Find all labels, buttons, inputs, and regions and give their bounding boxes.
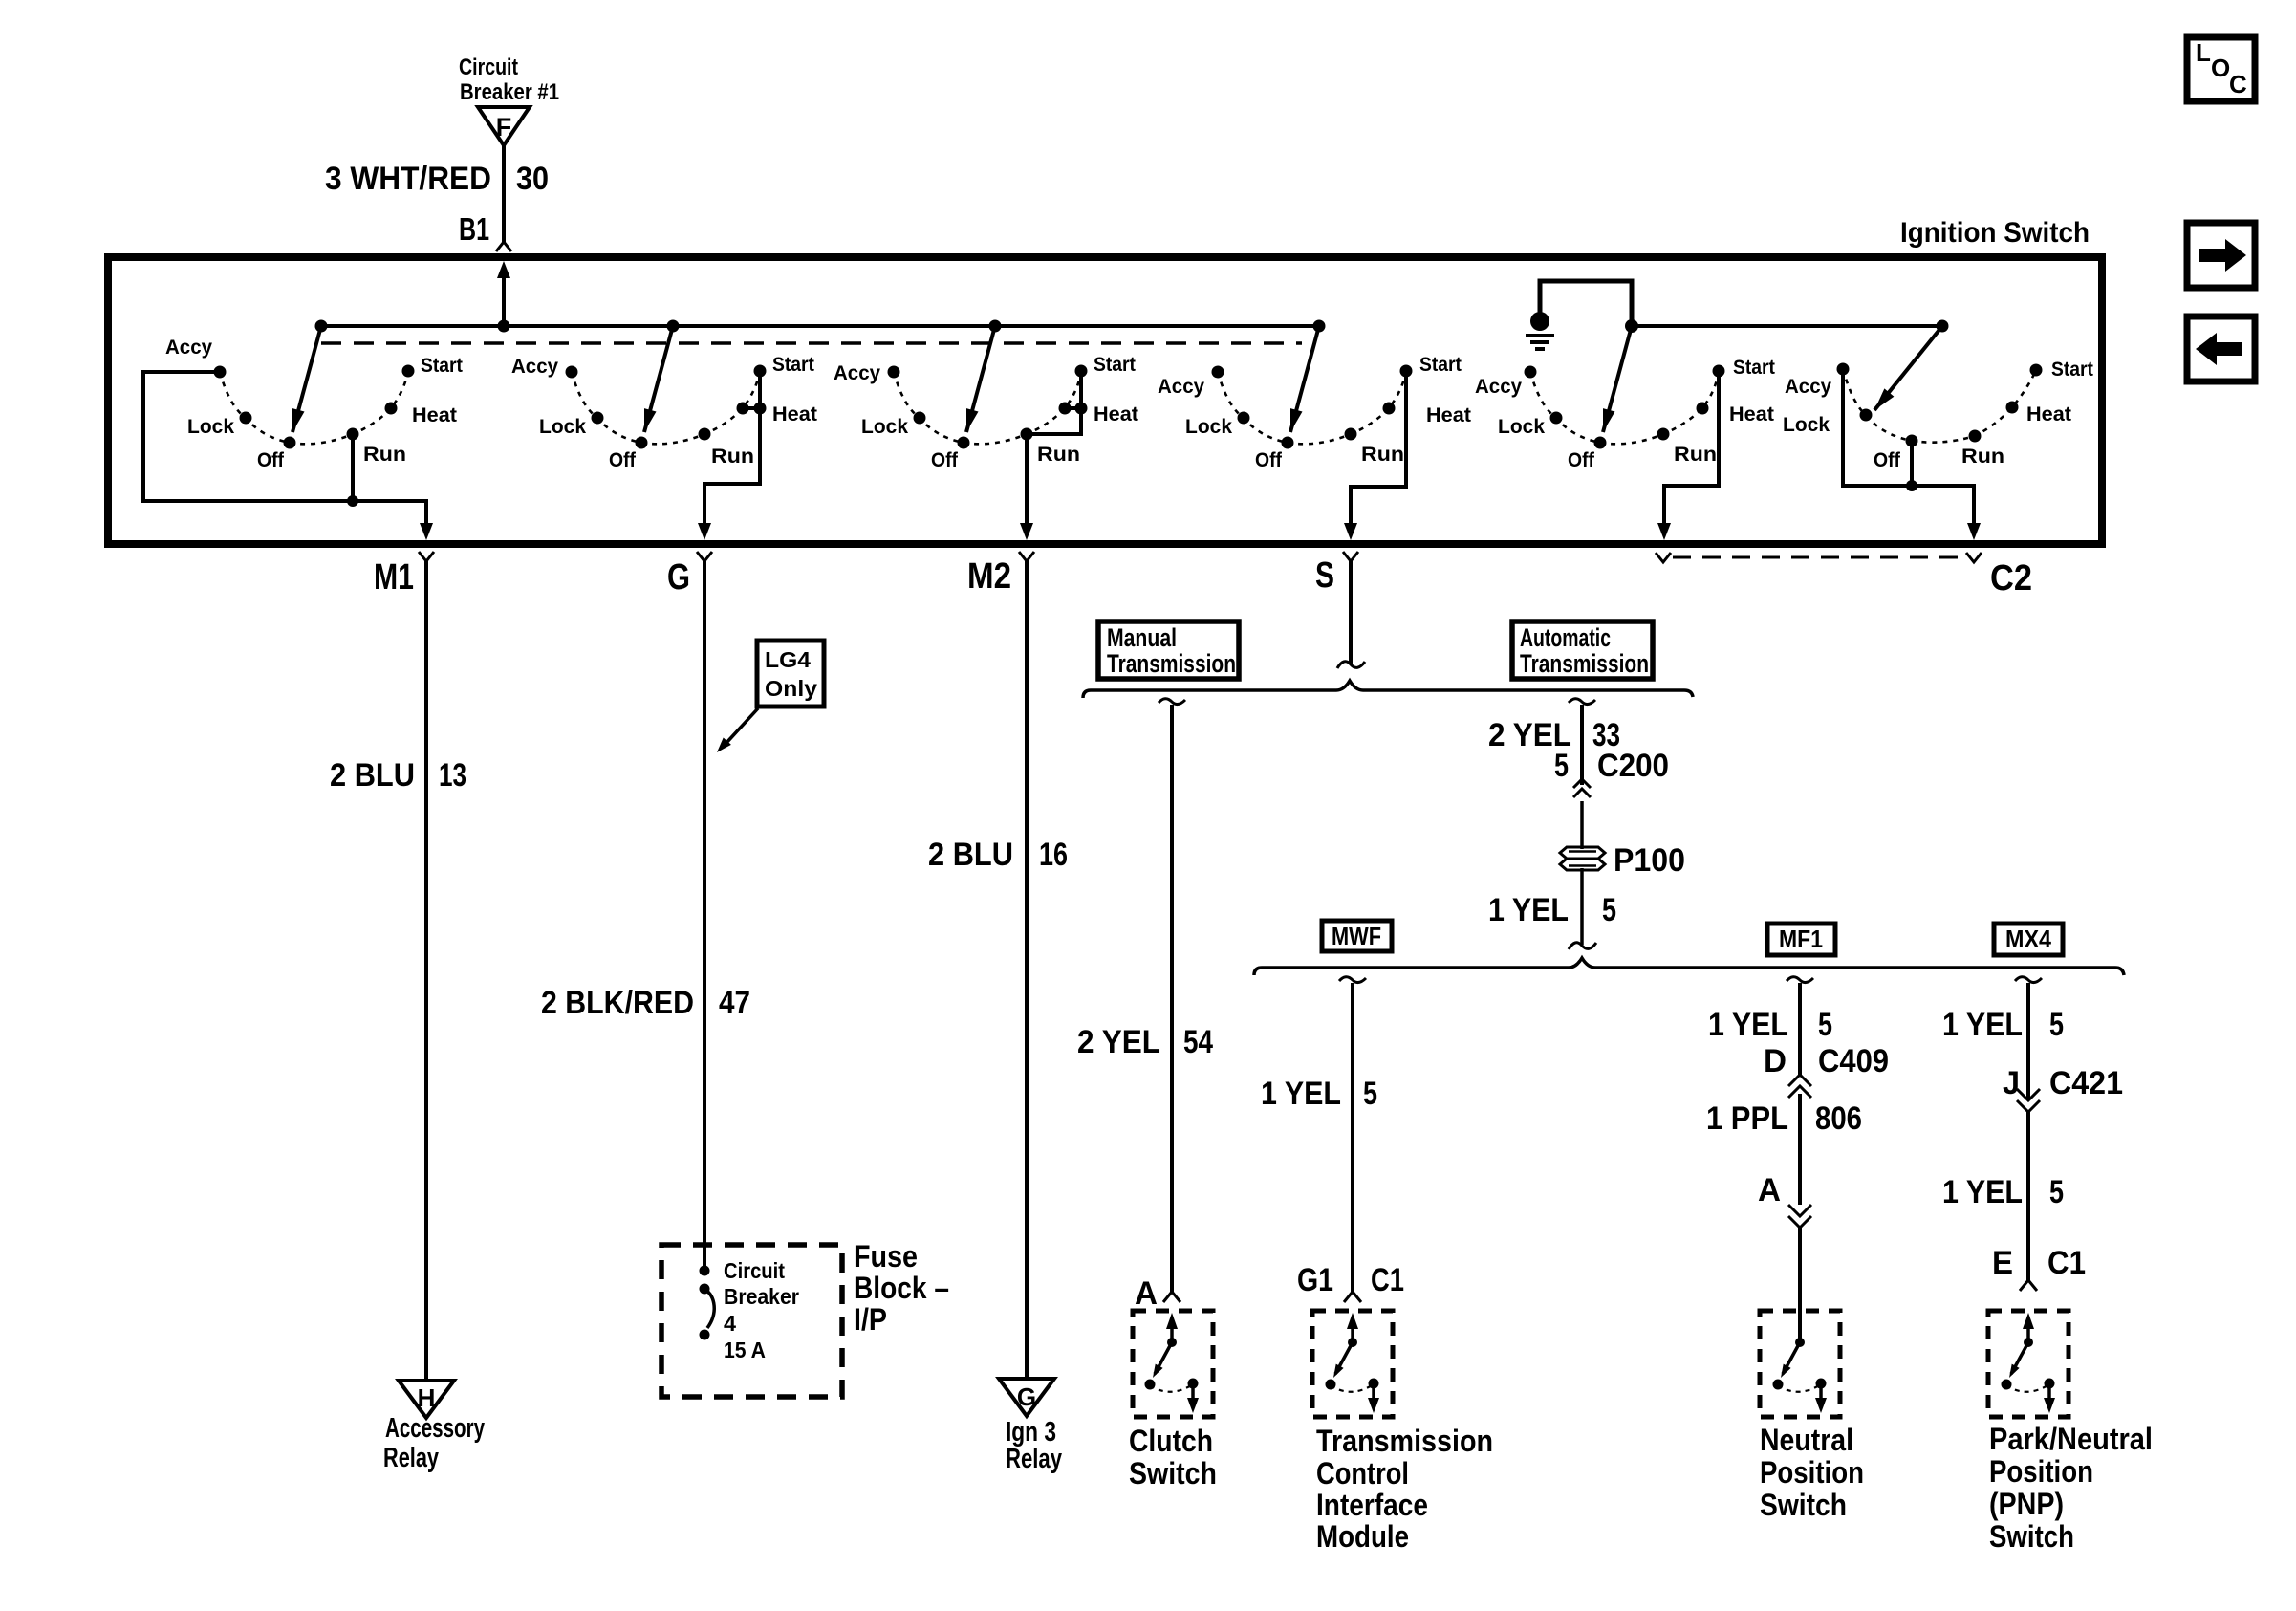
wire MWF branch hook (1339, 977, 1366, 983)
svg-text:1 YEL: 1 YEL (1942, 1007, 2023, 1043)
switch wafer 2 wiper arrow (644, 326, 673, 432)
switch wafer 5 labels (1475, 357, 1775, 471)
svg-text:Accy: Accy (511, 356, 558, 378)
svg-text:Lock: Lock (187, 416, 234, 438)
switch wafer 4 (S) contacts (1212, 365, 1413, 449)
callout box MF1 (1767, 924, 1835, 955)
junction node sw4 pivot (1313, 320, 1326, 333)
svg-text:I/P: I/P (854, 1302, 887, 1337)
svg-text:MF1: MF1 (1779, 925, 1823, 953)
brace splitting to MWF/MF1/MX4 (1254, 958, 2124, 975)
wire MX4 branch lower (1 YEL 5) (2026, 1112, 2030, 1280)
svg-text:Block –: Block – (854, 1271, 949, 1305)
switch wafer 2 labels (511, 354, 817, 471)
svg-text:G: G (1017, 1382, 1036, 1411)
svg-text:30: 30 (516, 161, 549, 197)
svg-text:Clutch: Clutch (1129, 1424, 1213, 1458)
svg-text:MWF: MWF (1332, 922, 1381, 950)
svg-text:2 YEL: 2 YEL (1077, 1024, 1160, 1060)
svg-text:5: 5 (2049, 1174, 2064, 1210)
svg-text:G: G (667, 557, 690, 598)
switch wafer 1 dashed detent arc (220, 371, 408, 444)
svg-text:Off: Off (1568, 449, 1595, 471)
switch wafer 5 wiper arrow (1603, 326, 1632, 432)
junction node sw6 pivot (1937, 320, 1949, 333)
connector chevrons C200 (1573, 779, 1591, 788)
svg-text:Run: Run (711, 446, 754, 468)
svg-text:Accessory: Accessory (385, 1413, 485, 1444)
svg-text:C2: C2 (1990, 558, 2032, 599)
callout box MX4 (1994, 924, 2063, 955)
svg-text:Heat: Heat (772, 403, 817, 425)
svg-text:Lock: Lock (1783, 414, 1830, 436)
svg-text:B1: B1 (459, 211, 489, 247)
svg-text:Heat: Heat (1729, 403, 1774, 425)
svg-text:C200: C200 (1597, 748, 1669, 784)
svg-text:Module: Module (1316, 1519, 1409, 1554)
svg-text:Off: Off (1255, 449, 1283, 471)
svg-text:C409: C409 (1818, 1043, 1889, 1079)
svg-text:C: C (2229, 70, 2247, 98)
svg-text:Heat: Heat (2026, 403, 2071, 425)
connector chevron B1 (496, 242, 511, 251)
svg-text:Accy: Accy (1475, 376, 1522, 398)
svg-text:Start: Start (1094, 354, 1136, 376)
switch wafer 6 (C2 right) contacts (1837, 363, 2043, 447)
clutch switch internals (1145, 1313, 1200, 1413)
svg-text:Run: Run (1961, 446, 2004, 468)
arrow G output to box edge (698, 523, 711, 540)
circuit breaker CB1 triangle symbol F (478, 107, 530, 145)
icon box arrow right (2187, 223, 2255, 288)
svg-text:Off: Off (1874, 449, 1901, 471)
svg-text:Lock: Lock (1185, 416, 1232, 438)
svg-text:Start: Start (1419, 354, 1462, 376)
wire break curl (auto) (1569, 943, 1596, 949)
bus wire battery feed (switches 1-4) (321, 324, 1319, 328)
svg-text:Heat: Heat (1426, 404, 1471, 426)
svg-text:Neutral: Neutral (1760, 1423, 1853, 1457)
clutch switch dashed box (1133, 1311, 1213, 1417)
svg-text:Interface: Interface (1316, 1488, 1428, 1522)
arrow from LG4 callout to wire (717, 708, 758, 752)
junction node sw5 pivot (1625, 319, 1638, 333)
svg-text:Accy: Accy (1785, 376, 1831, 398)
junction node sw3 pivot (989, 320, 1002, 333)
wire into neutral position switch (1798, 1228, 1802, 1342)
svg-text:C1: C1 (1371, 1262, 1404, 1298)
svg-text:16: 16 (1039, 837, 1068, 873)
connector chevron E/C1 (2020, 1280, 2037, 1291)
svg-text:13: 13 (439, 757, 466, 794)
svg-text:Run: Run (1037, 444, 1080, 466)
wire M2: Start/Heat/Run to output (1027, 371, 1081, 525)
svg-text:5: 5 (2049, 1007, 2064, 1043)
svg-text:(PNP): (PNP) (1989, 1487, 2064, 1521)
switch wafer 3 wiper arrow (966, 326, 995, 432)
fuse block dashed box (661, 1245, 842, 1397)
connector chevrons A (NPS) (1788, 1205, 1811, 1216)
svg-text:Off: Off (609, 449, 637, 471)
svg-text:Lock: Lock (1498, 416, 1545, 438)
switch wafer 1 labels (165, 337, 463, 471)
svg-text:Run: Run (1361, 444, 1404, 466)
callout box MWF (1322, 921, 1392, 951)
wire C2 pin2: Accy and Off to output (1843, 369, 1974, 525)
junction node sw2 pivot (667, 320, 680, 333)
svg-text:4: 4 (724, 1311, 736, 1336)
connector C2 dashed gang line (1673, 556, 1965, 559)
svg-text:S: S (1315, 555, 1334, 596)
wire MWF branch (1 YEL 5) (1351, 983, 1354, 1292)
switch wafer 4 labels (1158, 354, 1471, 471)
TCIM switch internals (1326, 1313, 1380, 1413)
connector chevron C2 pin1 (1656, 553, 1671, 562)
svg-text:Run: Run (363, 444, 406, 466)
off-page triangle G (999, 1379, 1054, 1416)
switch wafer 1 (M1) contacts (214, 365, 415, 449)
callout box Manual Transmission (1098, 621, 1239, 679)
svg-text:Lock: Lock (861, 416, 908, 438)
wire heat link sw2 (743, 406, 760, 410)
connector chevron M2 (1019, 552, 1034, 561)
off-page triangle H (399, 1381, 454, 1418)
svg-text:Run: Run (1674, 444, 1717, 466)
svg-text:Circuit: Circuit (459, 54, 518, 80)
switch wafer 1 wiper arrow (292, 326, 321, 432)
svg-text:Control: Control (1316, 1456, 1409, 1491)
wire M1: Accy and Run to output (143, 372, 426, 525)
wire heat link sw3 (1065, 406, 1081, 410)
wire automatic branch upper (2 YEL 33) (1580, 705, 1584, 785)
switch wafer 3 labels (834, 354, 1138, 471)
wire G output run to fuse block (703, 560, 706, 1271)
junction node sw6 off tap (1906, 480, 1917, 491)
svg-text:M1: M1 (374, 557, 414, 598)
wire C2 pin1: Start to output (1664, 371, 1719, 525)
svg-text:D: D (1764, 1043, 1787, 1079)
svg-text:Manual: Manual (1107, 623, 1177, 652)
svg-text:5: 5 (1554, 748, 1569, 784)
svg-text:Off: Off (257, 449, 285, 471)
svg-text:2 BLU: 2 BLU (330, 757, 415, 794)
connector chevron C2 pin2 (1966, 553, 1982, 562)
svg-text:Switch: Switch (1989, 1519, 2074, 1554)
svg-text:Position: Position (1760, 1455, 1864, 1490)
svg-text:15 A: 15 A (724, 1338, 766, 1362)
connector chevrons C409 (1788, 1075, 1811, 1086)
switch wafer 6 wiper arrow (points to Lock) (1874, 326, 1942, 410)
svg-text:Lock: Lock (539, 416, 586, 438)
ground symbol (1526, 312, 1554, 349)
callout box Automatic Transmission (1512, 621, 1653, 679)
svg-text:Start: Start (772, 354, 814, 376)
ground loop wire to switch 5 pivot (1540, 281, 1632, 326)
wire G: Start/Heat to output (704, 371, 760, 525)
circuit breaker 4 text (724, 1258, 799, 1362)
svg-text:Fuse: Fuse (854, 1239, 918, 1274)
svg-text:Transmission: Transmission (1520, 649, 1649, 678)
PNP switch dashed box (1988, 1311, 2069, 1417)
switch wafer 6 labels (1783, 359, 2093, 471)
junction node B1 tap (498, 320, 510, 333)
svg-text:806: 806 (1815, 1100, 1862, 1137)
switch wafer 3 (M2) contacts (888, 365, 1088, 449)
arrow S output to box edge (1344, 523, 1357, 540)
svg-text:O: O (2211, 54, 2230, 82)
switch wafer 5 dashed detent arc (1530, 371, 1719, 444)
wire automatic branch mid (1580, 801, 1584, 849)
wire Run stub sw1 (351, 434, 355, 501)
svg-text:Relay: Relay (383, 1443, 439, 1473)
svg-text:Park/Neutral: Park/Neutral (1989, 1422, 2153, 1456)
wire circuit 30 from breaker to B1 (502, 145, 506, 242)
svg-text:C421: C421 (2049, 1065, 2123, 1101)
svg-text:1 YEL: 1 YEL (1261, 1076, 1341, 1112)
wire MF1 branch hook (1787, 977, 1813, 983)
svg-text:1 PPL: 1 PPL (1706, 1100, 1788, 1137)
svg-text:J: J (2003, 1065, 2020, 1101)
wire break curl S (1337, 662, 1365, 668)
svg-text:Switch: Switch (1760, 1488, 1847, 1522)
wire B1 feed inside box with up arrow (502, 276, 506, 326)
label Fuse Block - I/P (854, 1239, 949, 1337)
switch wafer 2 dashed detent arc (572, 371, 760, 444)
PNP switch internals (2002, 1313, 2056, 1413)
wire S: Start to output (1351, 371, 1406, 525)
svg-text:Start: Start (1733, 357, 1775, 379)
svg-text:5: 5 (1363, 1076, 1377, 1112)
neutral position switch dashed box (1760, 1311, 1840, 1417)
connector chevron A (1163, 1292, 1180, 1302)
svg-text:A: A (1758, 1172, 1781, 1208)
callout box LG4 Only (757, 641, 824, 707)
label Park/Neutral Position (PNP) Switch (1989, 1422, 2153, 1554)
svg-text:2 BLK/RED: 2 BLK/RED (541, 985, 694, 1021)
svg-text:1 YEL: 1 YEL (1488, 892, 1569, 928)
svg-text:Accy: Accy (165, 337, 212, 359)
svg-text:Start: Start (421, 355, 463, 377)
svg-text:1 YEL: 1 YEL (1708, 1007, 1788, 1043)
label Neutral Position Switch (1760, 1423, 1864, 1522)
svg-text:Heat: Heat (1094, 403, 1138, 425)
wire M2 output run to Ign 3 relay (1025, 560, 1029, 1379)
svg-text:Transmission: Transmission (1316, 1424, 1493, 1458)
svg-text:47: 47 (719, 985, 750, 1021)
junction node sw1 pivot (315, 320, 328, 333)
wire MF1 branch lower (1 PPL 806) (1798, 1094, 1802, 1205)
svg-text:Transmission: Transmission (1107, 649, 1236, 678)
svg-text:LG4: LG4 (765, 647, 811, 672)
connector chevron S (1343, 552, 1358, 561)
arrow C2 pin2 output to box edge (1967, 523, 1981, 540)
svg-text:Automatic: Automatic (1520, 623, 1611, 652)
connector chevron G (697, 552, 712, 561)
arrow M1 output to box edge (420, 523, 433, 540)
svg-text:54: 54 (1183, 1024, 1213, 1060)
svg-text:P100: P100 (1614, 842, 1685, 879)
svg-text:G1: G1 (1297, 1262, 1333, 1298)
svg-text:Accy: Accy (1158, 376, 1204, 398)
wire MX4 branch hook (2015, 977, 2042, 983)
bus wire (switches 5-6) (1632, 324, 1942, 328)
icon box LOC (top right) (2187, 37, 2255, 101)
svg-text:2 BLU: 2 BLU (928, 837, 1013, 873)
svg-text:Breaker #1: Breaker #1 (460, 79, 559, 105)
svg-text:L: L (2196, 38, 2211, 67)
label Transmission Control Interface Module (1316, 1424, 1493, 1554)
svg-text:F: F (496, 113, 512, 142)
svg-text:M2: M2 (967, 556, 1011, 597)
connector chevron G1/C1 (1344, 1292, 1361, 1302)
switch wafer 2 (G) contacts (566, 365, 767, 449)
wire automatic branch lower (1 YEL 5) (1580, 868, 1584, 945)
connector chevrons C421 (2017, 1089, 2040, 1100)
TCIM dashed box (1312, 1311, 1393, 1417)
wire Off stub sw6 (1910, 441, 1914, 486)
svg-text:3 WHT/RED: 3 WHT/RED (325, 161, 491, 197)
switch wafer 4 dashed detent arc (1218, 371, 1406, 444)
connector chevron M1 (419, 552, 434, 561)
svg-text:Relay: Relay (1006, 1444, 1062, 1474)
switch wafer 6 dashed detent arc (1843, 369, 2036, 443)
switch wafer 5 (C2 left) contacts (1525, 365, 1725, 449)
svg-text:Off: Off (931, 449, 959, 471)
switch wafer 4 wiper arrow (1290, 326, 1319, 432)
svg-text:MX4: MX4 (2005, 925, 2051, 953)
wire MF1 branch upper (1 YEL 5) (1798, 983, 1802, 1076)
svg-text:5: 5 (1818, 1007, 1832, 1043)
icon box arrow left (2187, 316, 2255, 381)
svg-text:Ignition Switch: Ignition Switch (1900, 217, 2090, 249)
wire clutch branch hook (1159, 699, 1185, 705)
svg-text:H: H (418, 1383, 436, 1412)
wire MX4 branch upper (1 YEL 5) (2026, 983, 2030, 1100)
arrow M2 output to box edge (1020, 523, 1033, 540)
wire clutch branch (2 YEL 54) (1170, 705, 1174, 1292)
neutral position switch internals (1773, 1338, 1828, 1413)
svg-text:Breaker: Breaker (724, 1284, 799, 1309)
dashed gang line under bus (321, 341, 1302, 345)
switch wafer 3 dashed detent arc (894, 371, 1081, 444)
svg-text:E: E (1992, 1245, 2013, 1281)
svg-text:Only: Only (765, 676, 817, 701)
svg-text:1 YEL: 1 YEL (1942, 1174, 2023, 1210)
svg-text:Start: Start (2051, 359, 2093, 381)
svg-text:5: 5 (1602, 892, 1616, 928)
arrow C2 pin1 output to box edge (1657, 523, 1671, 540)
grommet P100 (1560, 847, 1605, 870)
wire M1 output run to accessory relay (424, 560, 428, 1381)
svg-text:A: A (1135, 1275, 1158, 1312)
circuit breaker 4 symbol (700, 1266, 715, 1340)
svg-text:Heat: Heat (412, 404, 457, 426)
svg-text:Accy: Accy (834, 362, 880, 384)
svg-text:Switch: Switch (1129, 1456, 1217, 1491)
wire S output stub (1349, 560, 1353, 664)
brace splitting S to manual/automatic (1083, 681, 1693, 698)
svg-text:Position: Position (1989, 1454, 2093, 1489)
junction node sw1 run tap (347, 495, 358, 507)
ignition switch enclosure box (108, 257, 2102, 544)
svg-text:C1: C1 (2047, 1245, 2086, 1281)
wire automatic branch hook (1569, 699, 1595, 705)
svg-text:Circuit: Circuit (724, 1258, 785, 1283)
